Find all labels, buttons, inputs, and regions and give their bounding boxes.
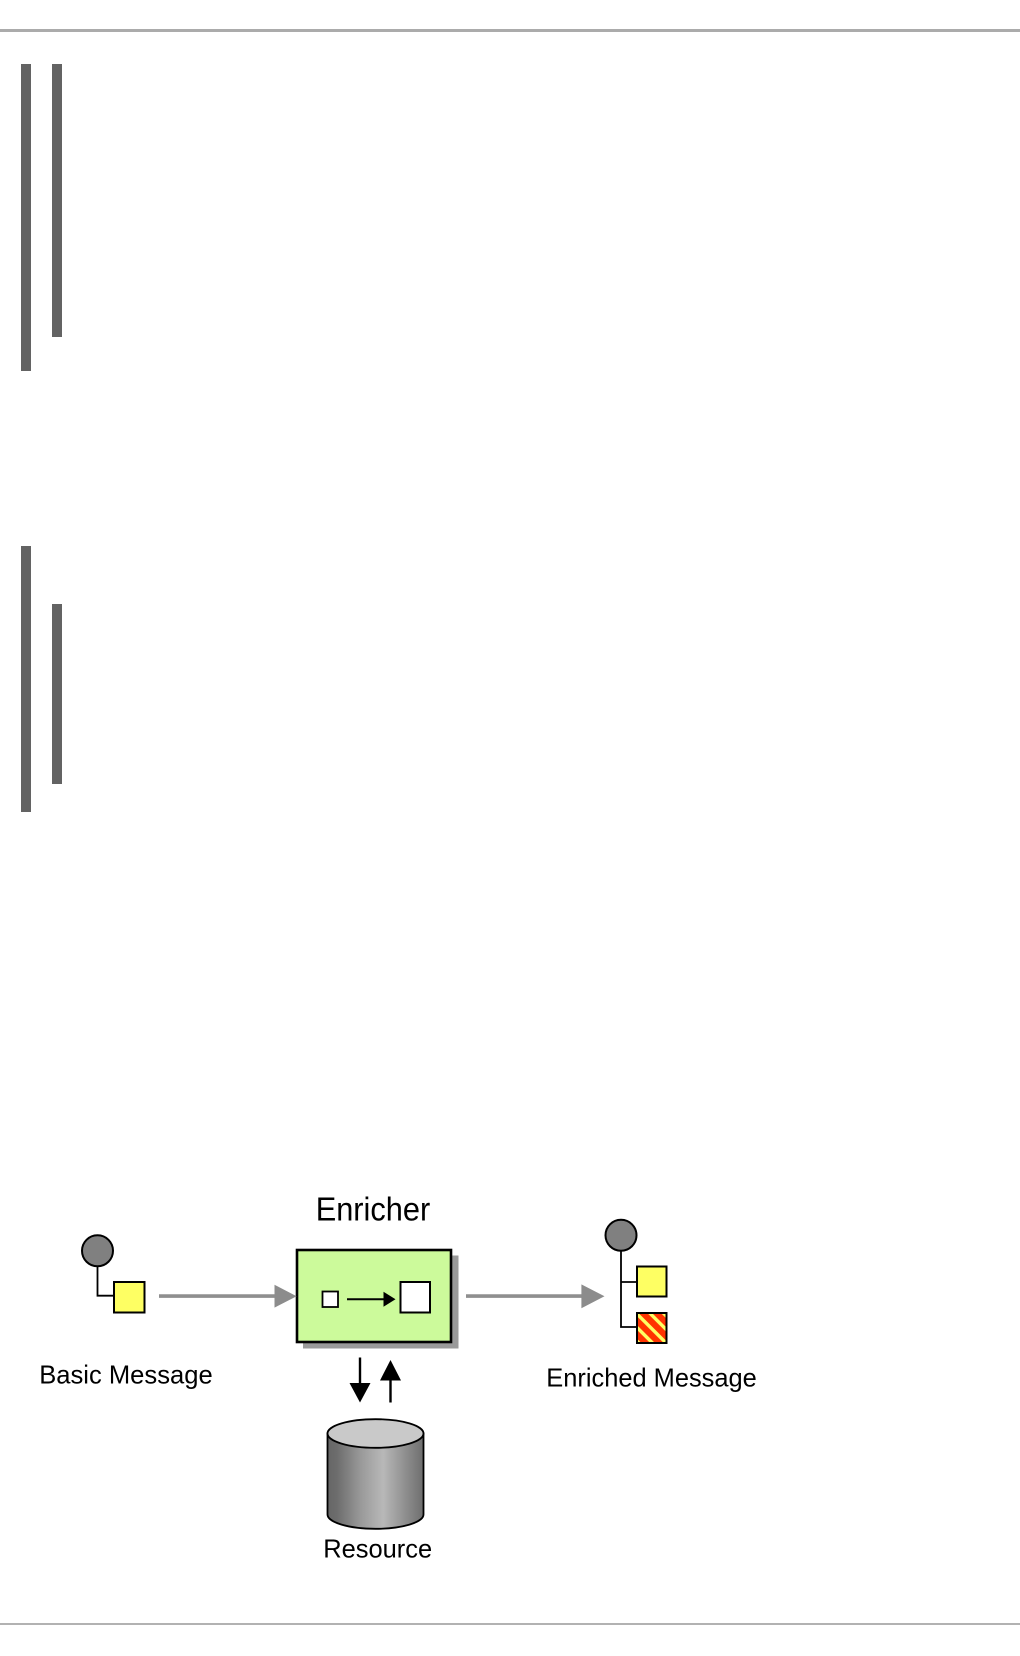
svg-text:Resource: Resource <box>323 1534 432 1564</box>
enriched message striped square <box>637 1313 667 1343</box>
down arrow to resource <box>350 1358 371 1403</box>
enriched message circle <box>606 1220 637 1251</box>
resource cylinder body <box>328 1434 424 1529</box>
enricher diagram <box>0 1180 1020 1580</box>
enricher box shadow <box>303 1256 459 1349</box>
basic message circle <box>82 1235 113 1266</box>
left flow arrow <box>159 1285 297 1308</box>
sidebar bar A <box>21 64 31 371</box>
top horizontal rule <box>0 29 1020 32</box>
basic message yellow square <box>114 1282 145 1313</box>
sidebar bar C <box>21 546 31 812</box>
resource cylinder top <box>328 1419 424 1448</box>
enriched message yellow square <box>637 1267 667 1297</box>
label Resource <box>323 1534 432 1564</box>
label Enricher <box>316 1191 431 1228</box>
large output square inside box <box>401 1282 431 1313</box>
basic message connector <box>98 1266 115 1296</box>
svg-text:Basic Message: Basic Message <box>39 1359 213 1389</box>
label Enriched Message <box>546 1363 757 1393</box>
svg-text:Enricher: Enricher <box>316 1191 431 1228</box>
bottom horizontal rule <box>0 1623 1020 1626</box>
small input square inside box <box>323 1292 339 1308</box>
svg-text:Enriched Message: Enriched Message <box>546 1363 757 1393</box>
sidebar bar D <box>52 604 62 784</box>
arrow inside box <box>347 1292 396 1307</box>
up arrow from resource <box>380 1360 401 1403</box>
label Basic Message <box>39 1359 213 1389</box>
enriched message connectors <box>621 1250 637 1327</box>
right flow arrow <box>466 1284 605 1308</box>
enricher box <box>297 1250 451 1342</box>
sidebar bar B <box>52 64 62 337</box>
